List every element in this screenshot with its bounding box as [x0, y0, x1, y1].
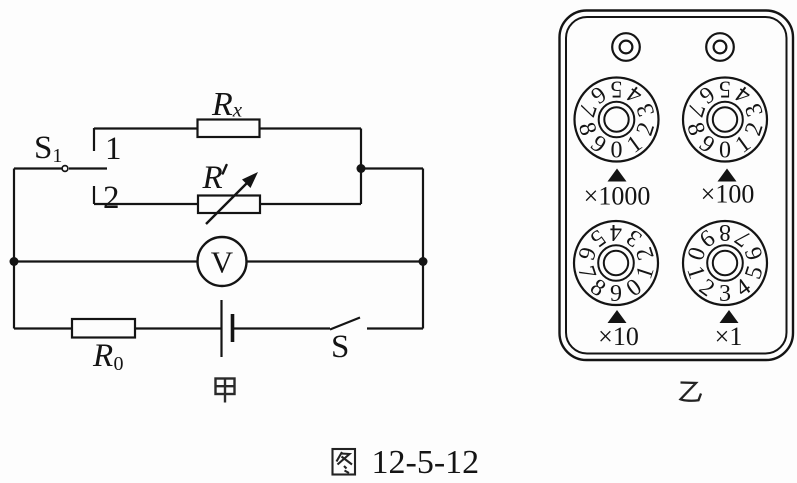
wire branch 2 left — [94, 203, 198, 205]
wire S1 feed — [14, 167, 62, 169]
pointer triangle for x1000 — [608, 169, 627, 182]
svg-text:V: V — [211, 245, 234, 280]
wire right rail vertical — [422, 169, 424, 329]
dial x10 digits 0-9 — [572, 219, 659, 307]
svg-text:5: 5 — [611, 76, 623, 102]
svg-text:S: S — [331, 329, 349, 365]
dial x1000 knob rings — [599, 102, 635, 138]
dial x100 outer circle — [683, 78, 767, 162]
svg-text:2: 2 — [103, 180, 120, 216]
dial x100 knob rings — [707, 102, 743, 138]
contact 1 tick — [93, 128, 95, 151]
contact 2 tick — [93, 186, 95, 204]
wire switch S to right rail — [367, 327, 423, 329]
switch S1 arm — [69, 167, 107, 169]
svg-text:0: 0 — [114, 353, 124, 375]
label yi (乙) — [681, 383, 702, 401]
svg-text:1: 1 — [105, 131, 122, 167]
wire junction to right rail — [361, 167, 423, 169]
svg-text:×100: ×100 — [701, 180, 755, 209]
wire left vertical — [13, 169, 15, 329]
resistor R0 — [72, 319, 135, 338]
pointer triangle for x10 — [608, 310, 627, 323]
wire bottom left — [14, 327, 72, 329]
svg-text:0: 0 — [719, 138, 731, 164]
svg-text:5: 5 — [719, 76, 731, 102]
wire branch 1 left — [94, 127, 198, 129]
switch S arm — [330, 318, 360, 330]
dial x1000 outer circle — [575, 78, 659, 162]
rheostat R' box — [198, 196, 260, 214]
svg-text:9: 9 — [610, 281, 622, 307]
label jia (甲) — [216, 379, 235, 403]
wire R0 to battery — [135, 327, 221, 329]
resistance box outer case — [560, 11, 794, 361]
wire branch 2 right — [260, 203, 361, 205]
dial x100 digits 0-9 — [681, 76, 768, 164]
dial x10 knob rings — [598, 245, 634, 281]
pointer triangle for x1 — [720, 310, 739, 323]
terminal left — [612, 33, 640, 61]
caption character tu (图) — [333, 449, 356, 475]
svg-text:×10: ×10 — [598, 322, 639, 351]
rheostat R' arrow — [206, 179, 251, 224]
svg-text:8: 8 — [719, 219, 731, 245]
resistance box inner border — [566, 17, 787, 354]
node left rail — [10, 257, 19, 266]
dial x1 digits 0-9 — [681, 219, 768, 307]
resistor Rx — [198, 120, 260, 138]
node right rail — [419, 257, 428, 266]
svg-text:R: R — [202, 160, 223, 196]
switch S1 pivot — [62, 166, 68, 172]
svg-text:3: 3 — [719, 281, 731, 307]
wire right vertical (branches join) — [360, 129, 362, 205]
dial x1 knob rings — [707, 245, 743, 281]
battery long plate — [220, 300, 222, 357]
wire voltmeter row — [14, 260, 423, 262]
svg-text:4: 4 — [610, 219, 622, 245]
node junction branches — [357, 164, 366, 173]
svg-text:0: 0 — [611, 138, 623, 164]
svg-text:×1000: ×1000 — [584, 182, 651, 211]
dial x1000 digits 0-9 — [573, 76, 660, 164]
voltmeter V — [198, 237, 247, 286]
svg-text:12-5-12: 12-5-12 — [372, 444, 480, 478]
battery short plate — [231, 314, 235, 342]
dial x1 outer circle — [683, 221, 767, 305]
svg-text:R: R — [92, 338, 113, 374]
dial x10 outer circle — [574, 221, 658, 305]
wire battery to switch S — [233, 327, 331, 329]
terminal right — [706, 33, 734, 61]
pointer triangle for x100 — [718, 169, 737, 182]
svg-text:×1: ×1 — [715, 322, 743, 351]
wire branch 1 right — [260, 127, 362, 129]
